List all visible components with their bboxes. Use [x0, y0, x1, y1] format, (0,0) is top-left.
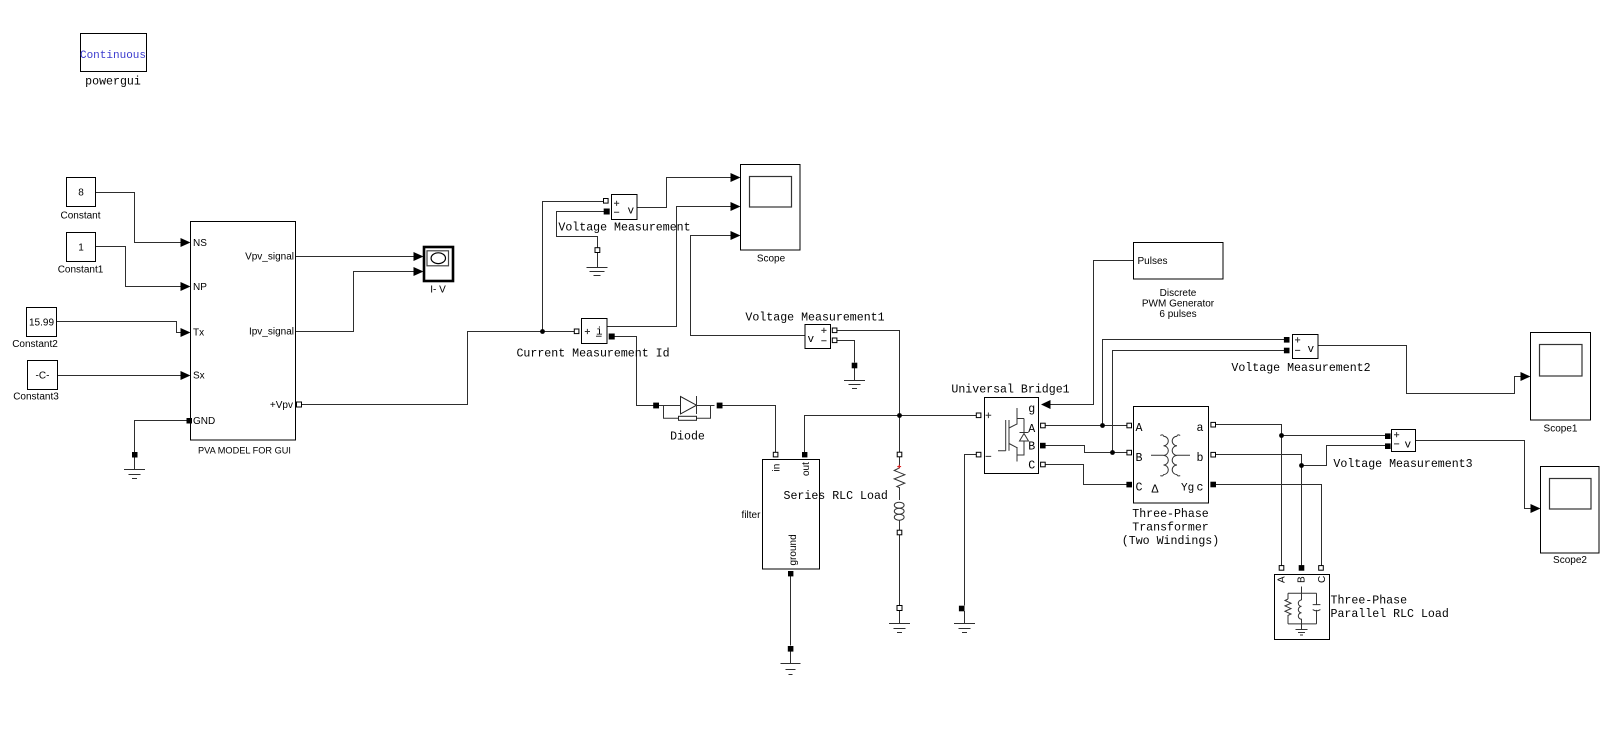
svg-text:Voltage Measurement1: Voltage Measurement1 [745, 312, 884, 325]
svg-text:C: C [1317, 576, 1328, 583]
svg-text:Tx: Tx [193, 328, 204, 339]
svg-text:Discrete: Discrete [1160, 288, 1197, 299]
svg-text:Voltage Measurement2: Voltage Measurement2 [1231, 362, 1370, 375]
svg-text:1: 1 [78, 243, 84, 254]
svg-text:Pulses: Pulses [1138, 256, 1168, 267]
svg-text:C: C [1136, 482, 1143, 495]
svg-text:a: a [1197, 422, 1204, 435]
svg-text:Three-Phase: Three-Phase [1132, 508, 1209, 521]
svg-text:powergui: powergui [85, 76, 141, 89]
svg-text:NS: NS [193, 238, 207, 249]
svg-text:Continuous: Continuous [80, 50, 146, 62]
svg-text:Vpv_signal: Vpv_signal [245, 252, 294, 263]
svg-text:Voltage Measurement: Voltage Measurement [558, 222, 690, 235]
svg-text:A: A [1028, 423, 1035, 436]
svg-text:Current Measurement Id: Current Measurement Id [516, 348, 669, 361]
svg-text:out: out [801, 462, 812, 476]
svg-text:Sx: Sx [193, 371, 205, 382]
svg-text:A: A [1277, 576, 1288, 583]
svg-text:B: B [1297, 576, 1308, 583]
svg-text:Constant: Constant [60, 211, 100, 222]
svg-text:8: 8 [78, 188, 84, 199]
svg-text:Scope: Scope [757, 254, 786, 265]
svg-text:Three-Phase: Three-Phase [1331, 594, 1408, 607]
svg-text:b: b [1197, 452, 1204, 465]
svg-text:g: g [1028, 403, 1035, 416]
svg-text:v: v [628, 206, 635, 218]
svg-text:6 pulses: 6 pulses [1159, 309, 1196, 320]
svg-text:Constant1: Constant1 [58, 265, 104, 276]
svg-text:PWM Generator: PWM Generator [1142, 299, 1215, 310]
svg-text:Diode: Diode [670, 431, 705, 444]
svg-text:ground: ground [788, 534, 799, 565]
svg-text:in: in [772, 464, 783, 472]
svg-text:v: v [1405, 440, 1412, 452]
svg-text:I- V: I- V [430, 285, 446, 296]
svg-text:Ipv_signal: Ipv_signal [249, 327, 294, 338]
svg-text:(Two Windings): (Two Windings) [1122, 535, 1219, 548]
svg-text:v: v [808, 334, 815, 346]
svg-text:c: c [1197, 482, 1204, 495]
svg-text:Scope2: Scope2 [1553, 555, 1587, 566]
svg-text:PVA MODEL FOR GUI: PVA MODEL FOR GUI [198, 446, 291, 456]
svg-text:Universal Bridge1: Universal Bridge1 [951, 384, 1069, 397]
svg-text:Constant3: Constant3 [13, 392, 59, 403]
svg-text:Parallel RLC Load: Parallel RLC Load [1331, 608, 1449, 621]
svg-text:Voltage Measurement3: Voltage Measurement3 [1333, 458, 1472, 471]
svg-text:GND: GND [193, 416, 215, 427]
svg-text:NP: NP [193, 282, 207, 293]
svg-text:Constant2: Constant2 [12, 339, 58, 350]
svg-text:C: C [1028, 459, 1035, 472]
svg-text:-C-: -C- [36, 371, 50, 382]
svg-text:B: B [1136, 452, 1143, 465]
svg-text:Series RLC Load: Series RLC Load [784, 490, 888, 503]
svg-text:Transformer: Transformer [1132, 521, 1209, 534]
svg-text:Yg: Yg [1181, 483, 1194, 495]
svg-text:15.99: 15.99 [29, 318, 54, 329]
svg-text:v: v [1308, 344, 1315, 356]
svg-text:i: i [596, 327, 603, 339]
svg-text:Scope1: Scope1 [1544, 424, 1578, 435]
svg-text:+Vpv: +Vpv [270, 400, 293, 411]
svg-text:A: A [1136, 422, 1143, 435]
svg-text:Δ: Δ [1152, 484, 1159, 497]
svg-text:B: B [1028, 440, 1035, 453]
svg-text:filter: filter [742, 510, 762, 521]
